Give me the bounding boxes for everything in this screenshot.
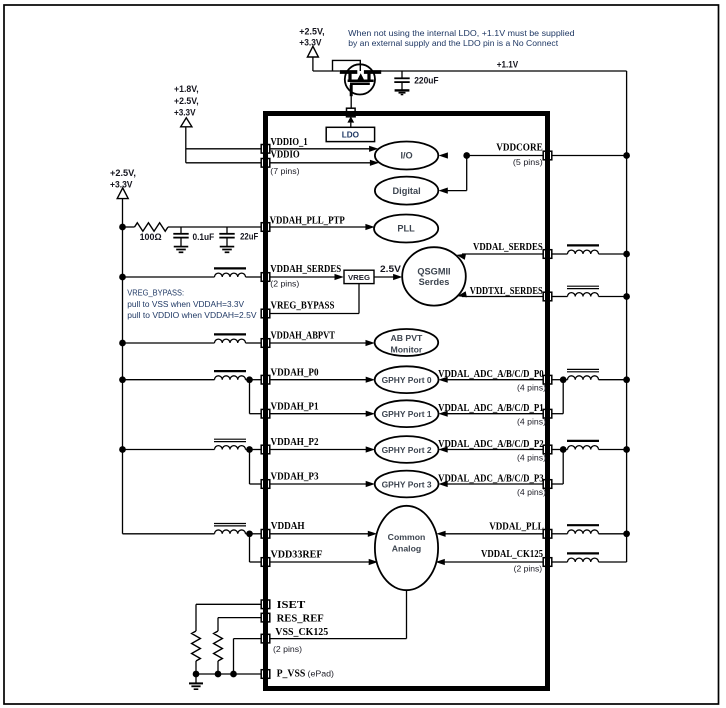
svg-text:Digital: Digital <box>393 186 421 196</box>
svg-text:pull to VDDIO when VDDAH=2.5V: pull to VDDIO when VDDAH=2.5V <box>127 310 256 320</box>
svg-text:pull to VSS when VDDAH=3.3V: pull to VSS when VDDAH=3.3V <box>127 299 244 309</box>
svg-text:+3.3V: +3.3V <box>174 108 196 118</box>
svg-text:VREG: VREG <box>348 273 370 282</box>
svg-text:I/O: I/O <box>400 151 412 161</box>
svg-text:VDDIO_1: VDDIO_1 <box>271 137 308 148</box>
svg-text:+3.3V: +3.3V <box>299 38 321 48</box>
svg-text:RES_REF: RES_REF <box>277 613 324 624</box>
svg-text:+2.5V,: +2.5V, <box>299 26 324 36</box>
svg-text:(ePad): (ePad) <box>308 668 335 678</box>
svg-text:100Ω: 100Ω <box>140 232 162 242</box>
svg-text:VDDAH: VDDAH <box>271 521 305 532</box>
svg-text:(5 pins): (5 pins) <box>513 157 543 167</box>
svg-text:VDDAL_CK125: VDDAL_CK125 <box>481 549 543 560</box>
svg-text:+1.8V,: +1.8V, <box>174 84 199 94</box>
svg-text:VDDAL_ADC_A/B/C/D_P3: VDDAL_ADC_A/B/C/D_P3 <box>438 474 544 485</box>
svg-text:Monitor: Monitor <box>390 345 422 355</box>
svg-text:(4 pins): (4 pins) <box>517 383 546 393</box>
svg-text:VDDAL_ADC_A/B/C/D_P2: VDDAL_ADC_A/B/C/D_P2 <box>438 439 544 450</box>
svg-text:(2 pins): (2 pins) <box>270 278 299 288</box>
svg-text:VDDTXL_SERDES: VDDTXL_SERDES <box>470 286 543 297</box>
svg-text:+3.3V: +3.3V <box>110 179 133 189</box>
svg-text:(4 pins): (4 pins) <box>517 487 546 497</box>
svg-text:+2.5V,: +2.5V, <box>174 96 199 106</box>
svg-text:(4 pins): (4 pins) <box>517 453 546 463</box>
svg-text:VDDAH_P3: VDDAH_P3 <box>271 472 319 483</box>
svg-text:GPHY Port 3: GPHY Port 3 <box>382 479 432 489</box>
svg-text:VDD33REF: VDD33REF <box>271 550 323 561</box>
svg-text:PLL: PLL <box>397 224 415 234</box>
svg-text:VDDAL_ADC_A/B/C/D_P0: VDDAL_ADC_A/B/C/D_P0 <box>438 369 544 380</box>
svg-text:GPHY Port 0: GPHY Port 0 <box>382 375 432 385</box>
svg-text:GPHY Port 1: GPHY Port 1 <box>382 409 432 419</box>
svg-text:VREG_BYPASS: VREG_BYPASS <box>271 301 335 312</box>
svg-text:VDDAH_P0: VDDAH_P0 <box>271 367 319 378</box>
svg-text:0.1uF: 0.1uF <box>193 232 215 242</box>
svg-text:QSGMII: QSGMII <box>417 267 450 277</box>
svg-text:VREG_BYPASS:: VREG_BYPASS: <box>127 287 184 297</box>
svg-text:VDDAL_ADC_A/B/C/D_P1: VDDAL_ADC_A/B/C/D_P1 <box>438 403 544 414</box>
svg-text:VDDCORE: VDDCORE <box>496 143 543 154</box>
svg-text:AB PVT: AB PVT <box>390 333 423 343</box>
svg-text:VDDAH_P2: VDDAH_P2 <box>271 437 319 448</box>
svg-text:VDDAH_P1: VDDAH_P1 <box>271 401 319 412</box>
svg-text:Serdes: Serdes <box>419 277 450 287</box>
svg-text:Common: Common <box>388 532 426 542</box>
svg-text:Analog: Analog <box>392 543 421 553</box>
svg-text:(2 pins): (2 pins) <box>514 564 543 574</box>
svg-text:(4 pins): (4 pins) <box>517 417 546 427</box>
svg-text:VDDAL_SERDES: VDDAL_SERDES <box>473 242 543 253</box>
svg-text:by an external supply and the: by an external supply and the LDO pin is… <box>348 38 559 48</box>
svg-text:2.5V: 2.5V <box>380 264 401 274</box>
svg-text:(7 pins): (7 pins) <box>270 166 299 176</box>
svg-text:LDO: LDO <box>342 130 360 139</box>
svg-text:VDDIO: VDDIO <box>271 149 300 160</box>
svg-text:P_VSS: P_VSS <box>277 668 306 679</box>
svg-text:VDDAH_PLL_PTP: VDDAH_PLL_PTP <box>270 215 345 226</box>
svg-text:VSS_CK125: VSS_CK125 <box>275 627 328 638</box>
svg-text:VDDAL_PLL: VDDAL_PLL <box>489 521 544 532</box>
svg-text:+2.5V,: +2.5V, <box>110 168 136 178</box>
svg-text:220uF: 220uF <box>414 75 439 85</box>
svg-text:VDDAH_ABPVT: VDDAH_ABPVT <box>271 331 336 342</box>
svg-text:GPHY Port 2: GPHY Port 2 <box>382 445 432 455</box>
svg-text:+1.1V: +1.1V <box>497 59 518 69</box>
svg-text:22uF: 22uF <box>240 232 259 242</box>
svg-text:(2 pins): (2 pins) <box>273 644 302 654</box>
svg-text:VDDAH_SERDES: VDDAH_SERDES <box>270 264 341 275</box>
svg-text:ISET: ISET <box>277 600 306 611</box>
svg-text:When not using the internal LD: When not using the internal LDO, +1.1V m… <box>348 28 575 38</box>
